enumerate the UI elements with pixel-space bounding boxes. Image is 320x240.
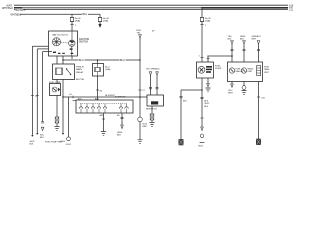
IG2 end terminal — [62, 133, 64, 135]
wire: resistor feed 1 — [150, 75, 152, 95]
wire: tap down to fuse box — [97, 60, 99, 64]
ignition switch rotor (key cylinder) — [52, 38, 60, 46]
svg-text:G101: G101 — [66, 144, 72, 146]
double tick sender 3 — [257, 50, 260, 51]
E9 page arrow — [121, 125, 124, 129]
switch circle label — [143, 124, 148, 128]
pump ground arrow — [207, 84, 210, 87]
svg-text:SWITCH: SWITCH — [79, 42, 88, 44]
wire: pump return drop — [201, 78, 203, 127]
wire: switch internal feed stem — [71, 31, 73, 40]
svg-text:RED: RED — [143, 126, 148, 128]
ignition switch contact circle — [69, 40, 75, 46]
svg-text:FUEL PUMP: FUEL PUMP — [49, 82, 61, 84]
ECM internal pin stubs — [81, 104, 127, 113]
X140 page arrow — [139, 35, 142, 38]
wire Y60 (BLU) — [63, 59, 140, 61]
node: Y97 tee at x63 — [62, 96, 64, 98]
double tick sender 2 — [243, 50, 246, 51]
wire: switch to left drop 1 — [32, 45, 48, 47]
unit 1 arrow label — [228, 90, 233, 94]
wire: X140 below circle — [139, 122, 141, 140]
svg-text:(30A): (30A) — [75, 19, 81, 22]
svg-text:WHT: WHT — [228, 92, 233, 94]
wire: drop to ignition switch — [71, 14, 73, 31]
node: X140 at Y60 — [139, 59, 141, 61]
fuel pump internal marks — [206, 66, 212, 73]
wire: drop to G101 bolt — [68, 97, 70, 137]
svg-text:BLK: BLK — [228, 38, 233, 40]
wire: drop to fuse No.44 — [99, 14, 101, 24]
drop 1 tick label — [35, 96, 37, 98]
X140 tick label — [142, 90, 146, 92]
wire: switch bottom stub ST — [56, 56, 58, 64]
wire: X140 vertical — [139, 38, 141, 117]
ECM pin labels above — [78, 97, 100, 100]
wire: sender feed 2 — [243, 44, 245, 62]
fuse box No.2 — [93, 64, 104, 77]
ignition switch title text — [53, 34, 69, 37]
shared ground text row — [45, 142, 62, 144]
fuse No.41 (30A) — [70, 17, 74, 21]
ground G301 — [137, 140, 142, 144]
svg-text:BLK: BLK — [40, 137, 45, 139]
fuse No.41 label — [75, 18, 82, 22]
svg-text:(20A): (20A) — [103, 19, 109, 22]
main relay contact — [66, 68, 71, 75]
ECM/PCM box — [76, 100, 133, 113]
node: bus B tap for pump — [201, 7, 203, 9]
svg-text:RESISTOR: RESISTOR — [146, 108, 157, 110]
wire: ECM drop E9 — [121, 113, 123, 125]
terminal marks inside switch — [53, 48, 73, 54]
svg-text:FUEL PUMP GND: FUEL PUMP GND — [45, 142, 62, 144]
Y97 wire label — [105, 93, 117, 96]
unit 1 page arrow — [231, 84, 234, 87]
bus C (BLK/WHT) — [14, 9, 288, 11]
tick on return drop low — [201, 117, 204, 119]
wire: resistor feed 2 — [156, 75, 158, 95]
fuse drop tick label — [100, 90, 103, 92]
resistor element — [151, 101, 158, 104]
fuel tank unit box — [228, 62, 263, 82]
oil pressure switch circle — [138, 117, 143, 122]
floating connector label — [152, 31, 155, 33]
double tick sender 1 — [231, 50, 234, 51]
wire: switch to left drop 2 — [37, 48, 48, 50]
wire: Y56 down into pump — [207, 56, 209, 62]
svg-text:BLK: BLK — [183, 101, 188, 103]
pump pin labels — [199, 55, 210, 57]
unit 2 bolt circle — [242, 86, 246, 90]
wire: sub box to ground drop — [56, 96, 58, 118]
sender feed arrow 3 — [257, 41, 260, 44]
svg-text:WHT/BLU: WHT/BLU — [11, 13, 22, 16]
fuse No.44 (20A) — [98, 17, 102, 21]
svg-text:BLK: BLK — [204, 106, 209, 108]
connector tick on fuse drop — [96, 89, 99, 91]
resistor feed arrow 2 — [156, 72, 159, 75]
left drop label — [183, 101, 188, 103]
pump feed tick label — [205, 25, 207, 27]
wire: pump ground stub — [207, 78, 209, 84]
fuse No.32 label — [205, 18, 212, 22]
fuel pump motor circle — [198, 66, 205, 73]
svg-text:UNIT: UNIT — [264, 72, 270, 74]
tick on X140 — [139, 89, 142, 91]
double tick on E9 drop — [121, 117, 124, 118]
pump feed pin tick — [200, 57, 203, 59]
ground bolt circle G552 — [200, 134, 204, 138]
bus B left label — [2, 7, 13, 10]
wire: sender feed 3 — [258, 44, 260, 62]
bus B (WHT/BLU) — [14, 7, 288, 9]
wire: unit 2 down stub — [243, 82, 245, 86]
sending unit circle 1 — [229, 68, 234, 73]
ECM internal dashed link — [80, 103, 127, 105]
sender feed label 2 — [240, 36, 246, 40]
unit 1 label — [236, 69, 244, 74]
bus B right label — [289, 8, 294, 12]
wire Y90 branch — [181, 89, 202, 91]
ECM/PCM title — [115, 96, 126, 98]
wire: switch to left drop 3 — [43, 51, 52, 53]
main relay coil marks — [57, 68, 61, 75]
sender feed arrow 2 — [243, 41, 246, 44]
ignition switch box — [49, 31, 78, 56]
svg-text:(15A): (15A) — [105, 68, 111, 71]
Y97 tick label — [69, 94, 73, 96]
wire: left drop 1 vertical — [31, 46, 33, 135]
fuel pump resistor box — [147, 95, 164, 106]
wire: Y90 left drop — [180, 90, 182, 139]
bus A right label — [289, 5, 294, 8]
svg-text:PUMP: PUMP — [215, 68, 222, 70]
sender feed arrow 1 — [231, 41, 234, 44]
wire: left drop 3 vertical — [42, 52, 44, 122]
wire W4 BLU label — [82, 13, 88, 16]
double tick feed 2 — [156, 88, 159, 89]
inline connector on resistor ground — [150, 114, 154, 120]
svg-text:BLK: BLK — [240, 38, 245, 40]
bus B right thick segment — [202, 7, 288, 9]
sending unit circle 2 — [241, 68, 246, 73]
sender feed label 1 — [228, 36, 233, 40]
connector block end (unit 3) — [256, 139, 260, 145]
svg-text:RELAY: RELAY — [76, 71, 84, 74]
return page arrow — [201, 127, 204, 131]
svg-text:BLK: BLK — [30, 143, 35, 145]
connector block end — [179, 139, 183, 145]
bus B thick start segment — [14, 7, 22, 9]
fuel pump label — [215, 65, 222, 70]
svg-text:(15A): (15A) — [205, 19, 211, 22]
wire: ECM ground drop A23 — [103, 113, 105, 132]
wire: unit 1 down stub — [231, 82, 233, 85]
drop 1 end label — [30, 141, 36, 145]
G552 label — [198, 146, 204, 148]
svg-text:ECM/PCM: ECM/PCM — [115, 96, 126, 98]
connector pin tick C440 — [70, 24, 73, 26]
drop 3 page arrow — [41, 127, 44, 130]
resistor feed arrow 1 — [149, 72, 152, 75]
node: X140 at Y97 — [139, 96, 141, 98]
drop 3 arrow label — [40, 134, 45, 138]
ground (resistor) — [149, 120, 154, 126]
wire: sender feed 1 — [231, 44, 233, 62]
G101 bolt circle — [67, 137, 71, 141]
main relay label — [76, 67, 84, 74]
svg-text:BLK/YEL: BLK/YEL — [76, 79, 85, 81]
ECM left stub — [73, 100, 77, 102]
wire: switch contact output stem — [71, 46, 73, 56]
ECM pin labels below — [100, 114, 121, 117]
node: Y56 tee at x232 — [231, 55, 233, 57]
return drop label — [204, 101, 210, 108]
resistor feed label row — [146, 69, 160, 71]
IG2 end label — [60, 141, 66, 143]
connector double tick on drop 3 — [41, 122, 44, 123]
connector tick on pump feed — [200, 24, 203, 26]
wire: relay to sub box — [56, 80, 58, 84]
double tick on pump pin 1 — [207, 58, 210, 60]
ground (pump) — [205, 88, 210, 92]
bus A (WHT) — [14, 4, 288, 6]
svg-text:BLK: BLK — [117, 135, 122, 137]
bus C inline label — [15, 9, 26, 12]
main relay coil — [56, 68, 63, 75]
sub box sensor circle — [52, 87, 57, 92]
svg-text:UNIT: UNIT — [248, 71, 254, 73]
ignition switch label (right) — [79, 39, 90, 44]
svg-text:BLU: BLU — [79, 59, 84, 62]
fuel pump sub box — [50, 84, 61, 96]
svg-text:IGNITION: IGNITION — [79, 39, 90, 41]
ECM internal contact arcs — [79, 107, 128, 109]
fuse No.2 label — [105, 67, 111, 72]
tank unit label — [264, 67, 270, 74]
ground G101 (left) — [54, 123, 59, 130]
E9 arrow label — [117, 132, 123, 136]
drop 1 end terminal — [32, 135, 34, 137]
svg-text:YEL GRN/BLK: YEL GRN/BLK — [146, 69, 160, 71]
svg-text:BLU: BLU — [83, 13, 88, 16]
wire: unit 3 long drop — [258, 82, 260, 140]
svg-text:BLK/WHT: BLK/WHT — [16, 10, 27, 12]
BLK/YEL label row — [76, 79, 85, 81]
Y60 label BLU right — [120, 59, 126, 62]
svg-text:TANK: TANK — [264, 68, 270, 71]
sender resistor element — [257, 66, 261, 76]
connector tick on Y97 — [72, 96, 74, 99]
wire W4 left label — [11, 13, 22, 16]
ground (unit 2) — [241, 89, 246, 94]
wire: resistor to ground — [151, 106, 153, 114]
wire: left drop 2 vertical — [36, 49, 38, 133]
tick on A23 drop — [102, 118, 105, 120]
resistor box label — [146, 108, 157, 110]
double tick on return drop — [201, 97, 204, 98]
wire Y56 link — [208, 55, 232, 57]
svg-text:WHT/BLU: WHT/BLU — [2, 7, 13, 10]
connector label — [75, 25, 77, 27]
PGM-FI main relay box — [53, 64, 75, 80]
svg-text:G552: G552 — [198, 146, 204, 148]
fuse No.44 label — [103, 18, 110, 22]
unit 2 label — [248, 69, 254, 74]
wire: fuse box down to ECM — [97, 76, 99, 100]
wire: switch bottom stub ACC — [71, 56, 73, 59]
svg-text:BLU: BLU — [120, 59, 125, 62]
fuse No.32 — [200, 17, 204, 21]
G552 base dash — [200, 142, 205, 144]
page connector arrow at fuse No.44 — [99, 24, 102, 27]
fuse No.2 element — [95, 64, 101, 77]
G101 bolt label — [66, 144, 72, 146]
wire: pump feed vertical — [201, 8, 203, 62]
inline connector on ground drop — [55, 117, 59, 123]
svg-text:WHT: WHT — [252, 38, 257, 40]
double tick feed 1 — [149, 88, 152, 89]
Y60 label BLU left — [79, 59, 85, 62]
dashed mechanical link — [61, 41, 68, 44]
sender feed label 3 — [252, 36, 262, 40]
fuel pump box — [197, 62, 214, 78]
wire: switch bottom IG2 drop — [62, 56, 64, 133]
ground G101 (ECM) — [101, 132, 106, 136]
wire Y97 branch (BLK/WHT) — [63, 96, 147, 98]
tick on unit 3 drop — [257, 96, 260, 98]
drop 2 end terminal — [36, 133, 38, 135]
node: Y60 tee at x63 — [62, 59, 64, 61]
node: Y90 tee — [201, 89, 203, 91]
connector tick on drop 2 — [36, 95, 39, 97]
bus A left label — [7, 4, 13, 7]
double tick on left drop — [180, 97, 183, 98]
svg-text:MAIN: MAIN — [76, 68, 82, 71]
svg-text:BAT IG1 IG2 ST: BAT IG1 IG2 ST — [53, 34, 69, 37]
connector tick on drop 1 — [31, 95, 34, 97]
node: fuse tap at x97.5 — [97, 59, 99, 61]
sub box diode — [58, 88, 60, 92]
X140 feed arrow label — [137, 30, 142, 34]
wire W4 (WHT/BLU feed) — [20, 13, 100, 15]
sub box top label — [49, 82, 61, 84]
unit 3 tick label — [261, 97, 266, 99]
